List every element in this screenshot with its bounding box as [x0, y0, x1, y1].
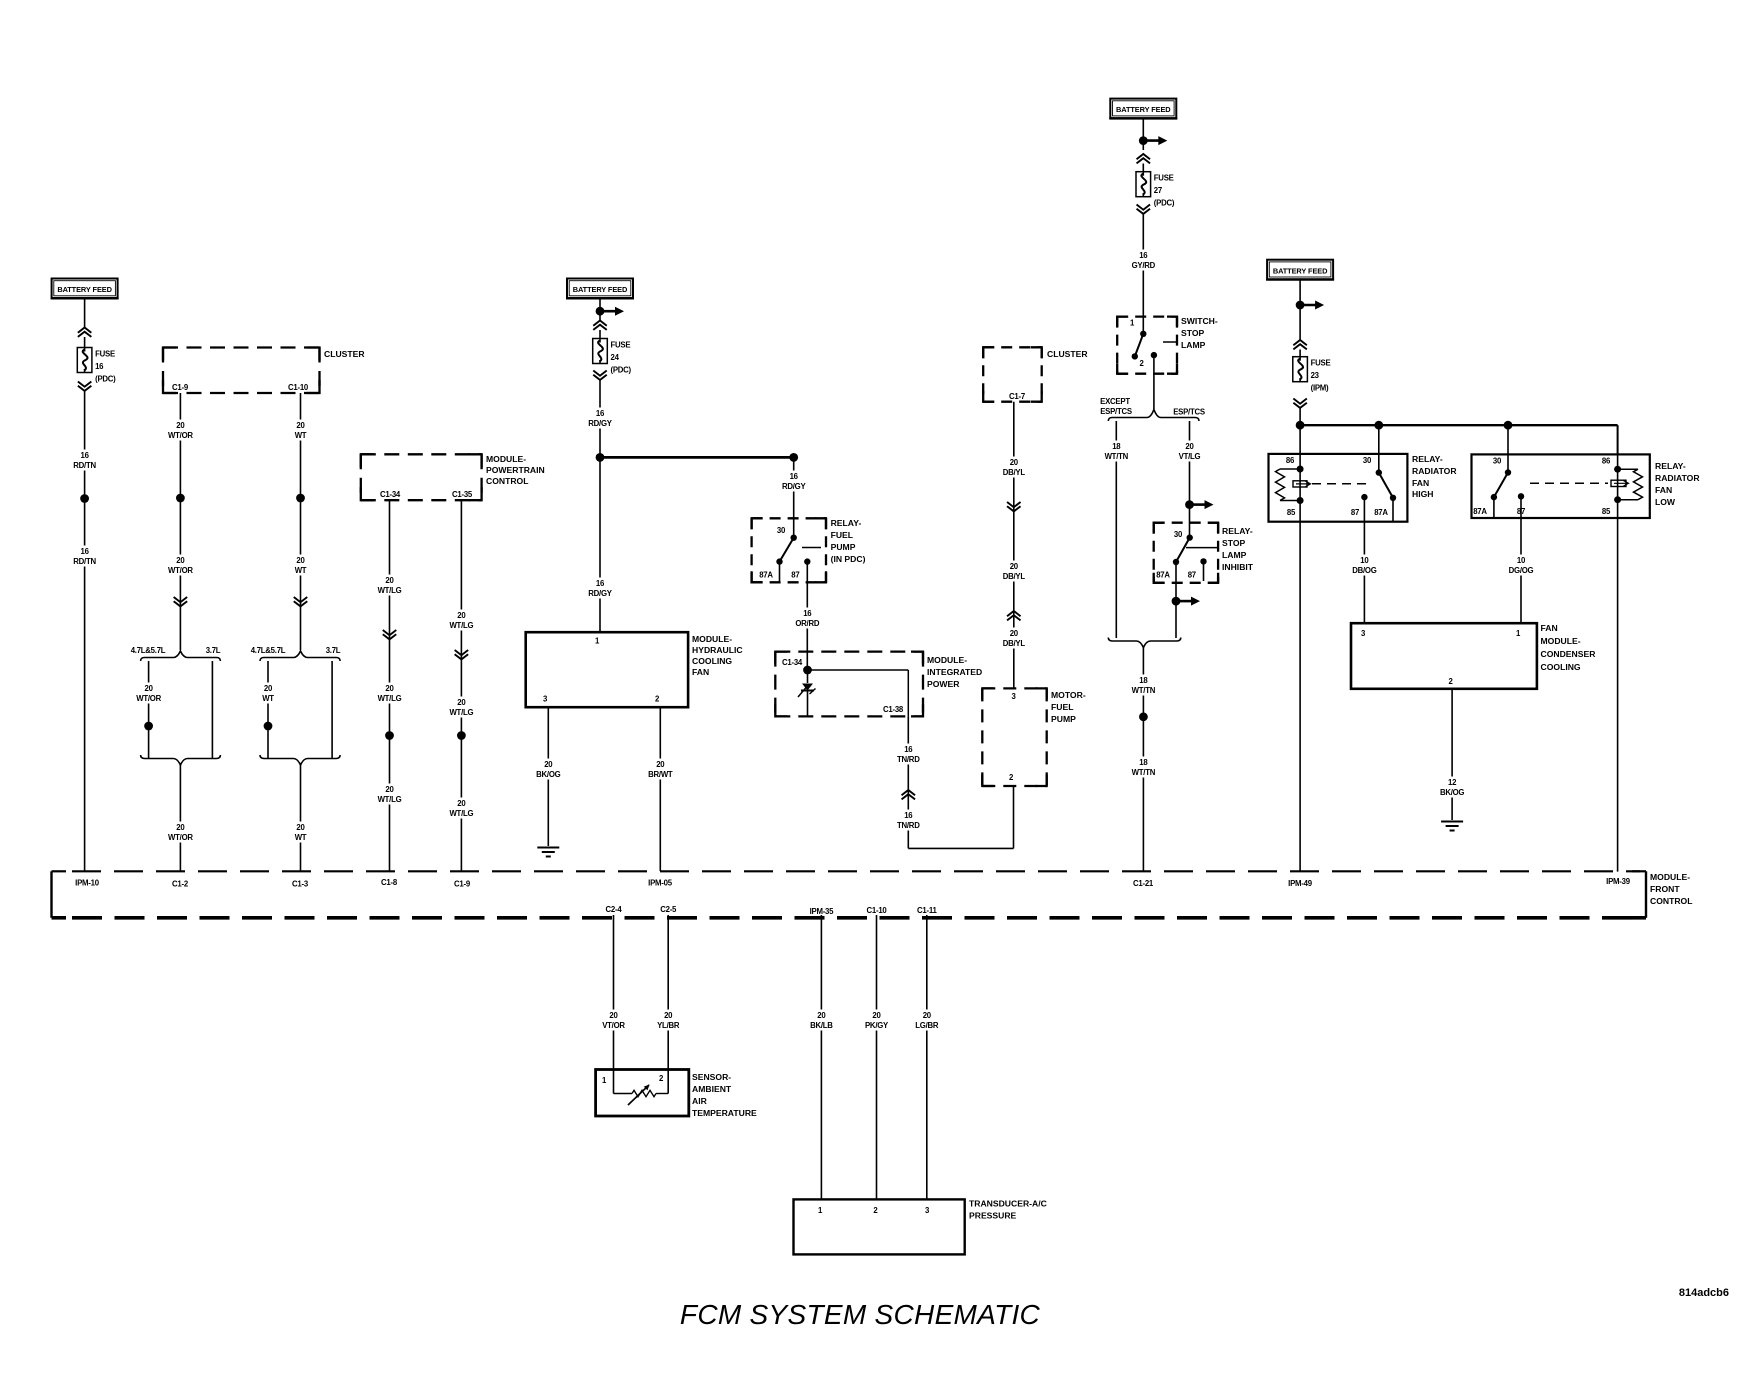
- wire branch to fuel pump relay (bus): [600, 456, 794, 459]
- FCM pin C1-2: [172, 880, 189, 889]
- svg-text:CLUSTER: CLUSTER: [1047, 349, 1088, 359]
- connector C1-34 label (PCM): [380, 490, 401, 499]
- svg-text:HYDRAULIC: HYDRAULIC: [692, 645, 743, 655]
- module hydraulic cooling fan: [526, 632, 743, 707]
- svg-text:RADIATOR: RADIATOR: [1655, 473, 1700, 483]
- FCM pin C2-5: [660, 905, 677, 914]
- svg-text:C1-10: C1-10: [288, 383, 309, 392]
- junction arrow below inhibit relay: [1172, 597, 1200, 638]
- pin 87 fan low: [1517, 507, 1525, 516]
- pin 2 ambient sensor: [659, 1074, 664, 1083]
- wire label 20 PK/GY: [862, 1010, 891, 1031]
- module integrated power: [775, 652, 982, 717]
- svg-text:20: 20: [1010, 562, 1019, 571]
- svg-text:30: 30: [1493, 457, 1502, 466]
- wire B3 to fuse 23: [1293, 305, 1307, 357]
- svg-text:SWITCH-: SWITCH-: [1181, 316, 1218, 326]
- label ESP/TCS: [1173, 408, 1205, 417]
- wire label 12 BK/OG: [1438, 777, 1467, 798]
- wire label 16 GY/RD: [1129, 250, 1158, 271]
- wire label 10 DG/OG: [1507, 555, 1536, 576]
- wire label 18 WT/TN branch: [1102, 441, 1131, 462]
- junction on RD/TN wire: [80, 494, 89, 503]
- svg-text:RD/TN: RD/TN: [73, 557, 96, 566]
- svg-text:20: 20: [1010, 629, 1019, 638]
- pin 87A fuel pump relay: [759, 571, 773, 580]
- label 4.7L&5.7L col3: [251, 646, 286, 655]
- svg-text:10: 10: [1517, 556, 1526, 565]
- wire label 18 WT/TN lower: [1129, 757, 1158, 778]
- battery feed B3 (top right): [1266, 260, 1334, 280]
- junction a: [385, 731, 394, 740]
- transducer A/C pressure: [794, 1199, 1047, 1255]
- svg-text:WT/OR: WT/OR: [168, 566, 193, 575]
- pin 30 inhibit relay: [1174, 530, 1183, 539]
- engine split brace col2: [141, 651, 221, 661]
- connector C1-38 label: [883, 705, 904, 714]
- svg-text:STOP: STOP: [1181, 328, 1205, 338]
- sensor ambient air temperature: [596, 1070, 757, 1119]
- svg-text:20: 20: [385, 576, 394, 585]
- pin 1 ambient sensor: [602, 1076, 607, 1085]
- svg-text:VT/OR: VT/OR: [602, 1021, 625, 1030]
- relay radiator fan low: [1472, 454, 1701, 518]
- svg-text:MODULE-: MODULE-: [1650, 872, 1690, 882]
- svg-text:STOP: STOP: [1222, 538, 1246, 548]
- svg-text:87A: 87A: [1156, 571, 1170, 580]
- wire label 20 WT mid: [293, 555, 308, 576]
- switch blade stop lamp: [1132, 331, 1147, 360]
- svg-text:814adcb6: 814adcb6: [1679, 1287, 1729, 1299]
- svg-text:C1-10: C1-10: [867, 906, 888, 915]
- svg-text:CONTROL: CONTROL: [486, 476, 529, 486]
- svg-text:FAN: FAN: [1655, 485, 1672, 495]
- wire B1 to fuse 16: [78, 298, 92, 348]
- svg-text:87A: 87A: [759, 571, 773, 580]
- junction fan relay bus left: [1296, 421, 1305, 430]
- svg-text:C1-11: C1-11: [917, 906, 937, 915]
- wire label 16 RD/GY relay: [779, 471, 808, 492]
- pin 86 fan high: [1286, 456, 1295, 465]
- coil fan high: [1276, 454, 1304, 522]
- svg-text:(PDC): (PDC): [1154, 199, 1175, 208]
- wire C1-10 to transducer pin2, 20 PK/GY: [876, 915, 878, 1199]
- switch blade fan high: [1376, 425, 1397, 522]
- wire label 20 WT/OR branch: [134, 683, 163, 704]
- svg-text:RD/GY: RD/GY: [588, 419, 612, 428]
- pin 87 stub: [804, 558, 810, 582]
- wire bus to relay 30, 16 RD/GY: [793, 457, 795, 537]
- svg-text:WT/LG: WT/LG: [449, 809, 473, 818]
- pin 30 fuel pump relay: [777, 526, 786, 535]
- wire label 16 RD/GY lower: [586, 578, 615, 599]
- svg-text:20: 20: [176, 421, 185, 430]
- svg-text:WT/OR: WT/OR: [168, 833, 193, 842]
- svg-text:86: 86: [1602, 457, 1611, 466]
- svg-text:20: 20: [296, 421, 305, 430]
- svg-text:PK/GY: PK/GY: [865, 1021, 889, 1030]
- merge brace stop lamp: [1108, 638, 1181, 648]
- svg-text:RADIATOR: RADIATOR: [1412, 466, 1457, 476]
- wire 85 fan high to FCM IPM-49: [1299, 522, 1301, 872]
- svg-text:20: 20: [872, 1011, 881, 1020]
- wire C1-10 to engine split, 20 WT: [300, 393, 302, 650]
- battery feed B2 (center): [566, 279, 634, 299]
- svg-text:C2-4: C2-4: [606, 905, 623, 914]
- svg-text:LOW: LOW: [1655, 497, 1676, 507]
- wire label 20 WT/LG a3: [375, 784, 404, 805]
- svg-text:16: 16: [596, 579, 605, 588]
- wire C1-11 to transducer pin3, 20 LG/BR: [926, 915, 928, 1199]
- svg-text:RELAY-: RELAY-: [1222, 526, 1253, 536]
- svg-text:20: 20: [457, 698, 466, 707]
- svg-text:RD/TN: RD/TN: [73, 461, 96, 470]
- actuator fan high: [1293, 481, 1368, 487]
- junction on 4.7L branch col3: [264, 722, 273, 731]
- engine merge brace col2: [141, 755, 221, 765]
- fuse F16 (PDC): [77, 348, 116, 384]
- svg-text:CONDENSER: CONDENSER: [1541, 649, 1597, 659]
- svg-text:CLUSTER: CLUSTER: [324, 349, 365, 359]
- wire C1-7 to fuel pump motor, 20 DB/YL: [1013, 402, 1015, 689]
- junction bus at relay high 30: [1374, 421, 1383, 430]
- wire label 20 WT/LG a1: [375, 575, 404, 596]
- wire label 16 TN/RD upper: [894, 744, 923, 765]
- FCM pin IPM-49: [1288, 879, 1313, 888]
- junction at C1-34: [803, 666, 812, 675]
- svg-text:MODULE-: MODULE-: [486, 454, 526, 464]
- wire label 20 DB/YL 2: [999, 561, 1028, 582]
- pin 2 hydraulic fan: [655, 695, 660, 704]
- pin 3 hydraulic fan: [543, 695, 548, 704]
- svg-text:30: 30: [777, 526, 786, 535]
- pin 87 fan high: [1351, 508, 1359, 517]
- svg-text:C1-21: C1-21: [1133, 879, 1154, 888]
- title FCM SYSTEM SCHEMATIC: [680, 1299, 1041, 1330]
- svg-text:WT/TN: WT/TN: [1132, 768, 1156, 777]
- svg-text:VT/LG: VT/LG: [1179, 452, 1201, 461]
- connector C1-7 label: [1009, 392, 1025, 401]
- ground G2 (condenser fan): [1441, 822, 1463, 831]
- svg-text:20: 20: [145, 684, 154, 693]
- switch right contact dash: [1163, 341, 1177, 343]
- svg-text:20: 20: [264, 684, 273, 693]
- engine split brace col3: [260, 651, 340, 661]
- junction bus at relay low 30: [1504, 421, 1513, 430]
- svg-text:12: 12: [1448, 778, 1457, 787]
- svg-text:FCM SYSTEM SCHEMATIC: FCM SYSTEM SCHEMATIC: [680, 1299, 1041, 1330]
- svg-text:(IN PDC): (IN PDC): [831, 554, 866, 564]
- svg-text:PUMP: PUMP: [831, 542, 856, 552]
- svg-text:(PDC): (PDC): [95, 375, 116, 384]
- svg-text:MOTOR-: MOTOR-: [1051, 690, 1086, 700]
- wire label 20 VT/OR: [599, 1010, 628, 1031]
- wire except branch, 18 WT/TN: [1115, 421, 1117, 638]
- pin 2 transducer: [873, 1206, 878, 1215]
- svg-text:WT/LG: WT/LG: [378, 795, 402, 804]
- fuse F23 (IPM): [1293, 357, 1331, 393]
- wire B2 to fuse 24: [593, 321, 607, 339]
- svg-text:DG/OG: DG/OG: [1509, 566, 1534, 575]
- wire label 20 WT/OR mid: [166, 555, 195, 576]
- inline connector a: [383, 630, 397, 639]
- svg-text:BATTERY FEED: BATTERY FEED: [1116, 105, 1171, 114]
- svg-text:FUSE: FUSE: [95, 350, 115, 359]
- svg-text:20: 20: [176, 823, 185, 832]
- wire label 20 WT branch: [260, 683, 275, 704]
- svg-text:16: 16: [81, 451, 90, 460]
- wire merge to FCM C1-2: [179, 765, 181, 871]
- svg-text:C1-38: C1-38: [883, 705, 904, 714]
- svg-text:20: 20: [656, 760, 665, 769]
- svg-text:EXCEPT: EXCEPT: [1100, 397, 1130, 406]
- coil fan low: [1614, 454, 1642, 518]
- actuator fan low: [1530, 480, 1629, 486]
- svg-text:FUSE: FUSE: [611, 341, 631, 350]
- FCM pin C1-3: [292, 880, 309, 889]
- svg-text:WT/OR: WT/OR: [168, 431, 193, 440]
- junction with feed arrow B2: [596, 298, 624, 320]
- switch blade inhibit relay: [1173, 534, 1193, 601]
- svg-text:MODULE-: MODULE-: [692, 634, 732, 644]
- svg-text:16: 16: [803, 609, 812, 618]
- thermistor element: [614, 1070, 669, 1106]
- svg-text:WT/TN: WT/TN: [1105, 452, 1129, 461]
- svg-text:C1-35: C1-35: [452, 490, 473, 499]
- svg-text:WT/LG: WT/LG: [378, 694, 402, 703]
- inline connector on WT/OR wire: [174, 597, 188, 606]
- wire label 10 DB/OG: [1350, 555, 1379, 576]
- relay stop lamp inhibit: [1154, 523, 1254, 583]
- motor fuel pump: [982, 688, 1086, 786]
- FCM pin IPM-05: [648, 879, 673, 888]
- svg-text:BATTERY FEED: BATTERY FEED: [573, 285, 628, 294]
- svg-text:OR/RD: OR/RD: [795, 619, 819, 628]
- label 3.7L col2: [206, 646, 221, 655]
- wire label 20 YL/BR: [654, 1010, 683, 1031]
- switch blade fan low: [1491, 425, 1512, 518]
- wire fuse 16 to FCM IPM-10, 16 RD/TN: [78, 382, 92, 872]
- svg-text:WT/OR: WT/OR: [136, 694, 161, 703]
- wire C2-4 to sensor pin1, 20 VT/OR: [613, 915, 615, 1070]
- plate code 814adcb6: [1679, 1287, 1729, 1299]
- pin 85 fan high: [1287, 508, 1296, 517]
- wire label 20 WT/OR bottom: [166, 822, 195, 843]
- svg-text:DB/YL: DB/YL: [1003, 639, 1026, 648]
- pin 1 condenser fan: [1516, 629, 1521, 638]
- svg-text:PRESSURE: PRESSURE: [969, 1211, 1017, 1221]
- svg-text:16: 16: [790, 472, 799, 481]
- pin 87A fan low: [1473, 507, 1487, 516]
- svg-text:IPM-39: IPM-39: [1606, 877, 1631, 886]
- wire label 20 DB/YL 3: [999, 628, 1028, 649]
- junction at fuel pump relay branch: [789, 453, 798, 462]
- actuator dash fuel pump relay: [802, 547, 821, 549]
- svg-text:RD/GY: RD/GY: [588, 589, 612, 598]
- svg-text:86: 86: [1286, 456, 1295, 465]
- svg-text:3.7L: 3.7L: [206, 646, 221, 655]
- svg-text:DB/YL: DB/YL: [1003, 468, 1026, 477]
- wire IPM-35 to transducer pin1, 20 BK/LB: [820, 915, 822, 1199]
- svg-text:C1-3: C1-3: [292, 880, 309, 889]
- cluster module (instrument cluster, left): [163, 348, 365, 394]
- svg-text:FUSE: FUSE: [1311, 359, 1331, 368]
- switch blade fuel pump relay: [776, 535, 797, 583]
- wire label 20 WT bottom: [293, 822, 308, 843]
- wire label 20 WT upper: [293, 420, 308, 441]
- svg-text:BK/OG: BK/OG: [1440, 788, 1464, 797]
- inline connector TN/RD: [902, 790, 916, 799]
- svg-text:3.7L: 3.7L: [326, 646, 341, 655]
- svg-text:POWER: POWER: [927, 679, 960, 689]
- wire 85 fan low to FCM IPM-39: [1617, 518, 1619, 872]
- svg-text:30: 30: [1363, 456, 1372, 465]
- svg-text:18: 18: [1139, 676, 1148, 685]
- svg-text:87: 87: [791, 571, 799, 580]
- junction on WT/TN wire: [1139, 712, 1148, 721]
- switch stop lamp: [1117, 316, 1218, 374]
- svg-text:DB/YL: DB/YL: [1003, 572, 1026, 581]
- svg-text:RD/GY: RD/GY: [782, 482, 806, 491]
- svg-text:C1-7: C1-7: [1009, 392, 1025, 401]
- pin 87 inhibit relay: [1188, 558, 1207, 581]
- svg-text:20: 20: [385, 684, 394, 693]
- svg-text:RELAY-: RELAY-: [1655, 461, 1686, 471]
- pin 1 stop lamp switch: [1130, 319, 1135, 328]
- svg-text:WT/LG: WT/LG: [378, 586, 402, 595]
- wire 4.7L branch col3: [267, 661, 269, 759]
- svg-text:20: 20: [1185, 442, 1194, 451]
- svg-text:20: 20: [457, 799, 466, 808]
- wire label 20 LG/BR: [912, 1010, 941, 1031]
- module front control outline: [52, 871, 1693, 918]
- svg-text:30: 30: [1174, 530, 1183, 539]
- wire B4 to fuse 27: [1137, 154, 1151, 172]
- module powertrain control: [361, 454, 545, 500]
- svg-text:DB/OG: DB/OG: [1352, 566, 1376, 575]
- svg-text:4.7L&5.7L: 4.7L&5.7L: [251, 646, 286, 655]
- wire label 18 WT/TN upper: [1129, 675, 1158, 696]
- pin 87 stub fan high: [1361, 494, 1367, 500]
- FCM pin C1-10 lower: [867, 906, 888, 915]
- svg-text:ESP/TCS: ESP/TCS: [1173, 408, 1205, 417]
- junction on WT/OR wire: [176, 494, 185, 503]
- pin 3 fuel pump motor: [1011, 692, 1016, 701]
- svg-text:18: 18: [1139, 758, 1148, 767]
- svg-text:20: 20: [544, 760, 553, 769]
- svg-text:AIR: AIR: [692, 1096, 708, 1106]
- svg-text:COOLING: COOLING: [692, 656, 732, 666]
- inline connector on WT wire: [294, 597, 308, 606]
- svg-text:LAMP: LAMP: [1222, 550, 1247, 560]
- pin 2 fuel pump motor: [1009, 773, 1014, 782]
- label 4.7L&5.7L col2: [131, 646, 166, 655]
- svg-text:PUMP: PUMP: [1051, 714, 1076, 724]
- pin 87 stub fan low: [1518, 493, 1524, 499]
- svg-text:16: 16: [81, 547, 90, 556]
- connector C1-34 label (IPM): [782, 658, 803, 667]
- pin 1 transducer: [818, 1206, 823, 1215]
- FCM pin C1-21: [1133, 879, 1154, 888]
- wire label 20 BK/OG: [534, 759, 563, 780]
- svg-text:TEMPERATURE: TEMPERATURE: [692, 1108, 757, 1118]
- wire 87 fan low to fan module pin 1, 10 DG/OG: [1520, 496, 1522, 623]
- svg-text:TRANSDUCER-A/C: TRANSDUCER-A/C: [969, 1199, 1047, 1209]
- label EXCEPT ESP/TCS: [1100, 397, 1132, 416]
- svg-text:YL/BR: YL/BR: [657, 1021, 680, 1030]
- svg-text:FUEL: FUEL: [1051, 702, 1073, 712]
- svg-text:LAMP: LAMP: [1181, 340, 1206, 350]
- wire esp branch, 20 VT/LG: [1189, 421, 1191, 538]
- svg-text:C1-34: C1-34: [380, 490, 401, 499]
- FCM pin C1-9 lower: [454, 880, 471, 889]
- wire merge to FCM C1-21, 18 WT/TN: [1142, 648, 1144, 872]
- inline connector DB/YL up: [1007, 611, 1021, 620]
- svg-text:20: 20: [296, 556, 305, 565]
- svg-text:WT: WT: [295, 833, 307, 842]
- junction on WT wire: [296, 494, 305, 503]
- junction b: [457, 731, 466, 740]
- svg-text:RELAY-: RELAY-: [831, 518, 862, 528]
- wire 3.7L branch col2: [211, 661, 213, 759]
- svg-text:FRONT: FRONT: [1650, 884, 1680, 894]
- svg-text:(PDC): (PDC): [611, 366, 632, 375]
- svg-text:BATTERY FEED: BATTERY FEED: [57, 285, 112, 294]
- svg-text:87: 87: [1188, 571, 1196, 580]
- svg-text:85: 85: [1602, 507, 1611, 516]
- wire label 20 WT/OR upper: [166, 420, 195, 441]
- svg-text:20: 20: [1010, 458, 1019, 467]
- svg-text:INHIBIT: INHIBIT: [1222, 562, 1254, 572]
- svg-text:FAN: FAN: [692, 667, 709, 677]
- ground G1 (hydraulic fan): [537, 848, 559, 857]
- wire label 16 RD/TN lower: [70, 546, 99, 567]
- actuator dash inhibit relay: [1186, 547, 1218, 549]
- battery feed B1 (top left): [51, 279, 119, 299]
- wire C1-38 to fuel pump motor, 16 TN/RD: [908, 716, 1013, 848]
- svg-text:85: 85: [1287, 508, 1296, 517]
- svg-text:IPM-10: IPM-10: [75, 879, 100, 888]
- engine merge brace col3: [260, 755, 340, 765]
- junction on 4.7L branch col2: [144, 722, 153, 731]
- label 3.7L col3: [326, 646, 341, 655]
- FCM pin C2-4: [606, 905, 623, 914]
- svg-text:16: 16: [1139, 251, 1148, 260]
- svg-text:16: 16: [596, 409, 605, 418]
- svg-text:SENSOR-: SENSOR-: [692, 1072, 731, 1082]
- svg-text:87: 87: [1351, 508, 1359, 517]
- wire label 20 WT/LG a2: [375, 683, 404, 704]
- wire label 16 TN/RD lower: [894, 810, 923, 831]
- junction with feed arrow B4: [1139, 119, 1167, 151]
- svg-text:C1-9: C1-9: [454, 880, 471, 889]
- pin 87A inhibit relay: [1156, 571, 1170, 580]
- wire C1-34 to C1-38 internal: [808, 670, 909, 716]
- svg-text:HIGH: HIGH: [1412, 489, 1433, 499]
- svg-text:C1-8: C1-8: [381, 878, 398, 887]
- wire 3.7L branch col3: [331, 661, 333, 759]
- svg-text:FAN: FAN: [1541, 623, 1558, 633]
- svg-text:INTEGRATED: INTEGRATED: [927, 667, 982, 677]
- fuse F24 (PDC): [593, 339, 632, 375]
- svg-text:18: 18: [1112, 442, 1121, 451]
- svg-text:TN/RD: TN/RD: [897, 755, 920, 764]
- svg-text:BK/LB: BK/LB: [810, 1021, 833, 1030]
- svg-text:87A: 87A: [1374, 508, 1388, 517]
- svg-text:24: 24: [611, 353, 620, 362]
- svg-text:TN/RD: TN/RD: [897, 821, 920, 830]
- connector C1-35 label (PCM): [452, 490, 473, 499]
